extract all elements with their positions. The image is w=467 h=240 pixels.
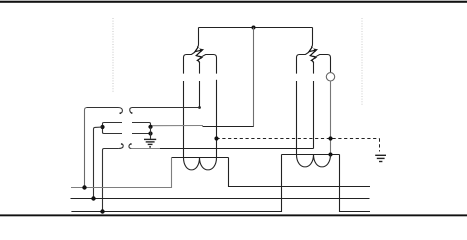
terminal block row A left: corner and wire from bus 1 (85, 108, 88, 188)
top border line (0, 1, 467, 3)
wire: vertical left lead of F2 group below gap (296, 81, 298, 155)
wire: center vertical from top bus dot (253, 28, 255, 127)
current transformer TA2 winding arc 1 (297, 155, 314, 167)
wire: row D right black portion to F2 middle lead (160, 148, 314, 150)
terminal link hook row A left (118, 108, 122, 114)
wire: row C left segment (103, 127, 123, 134)
current transformer TA1 winding arc 1 (184, 158, 200, 170)
ground symbol right (375, 155, 386, 161)
fuse F1 zigzag element (195, 47, 203, 63)
node: right voltage-link lower dot (148, 131, 152, 135)
wire: link between the two right dots down to ground (150, 127, 152, 139)
dashed earth wire horizontal (217, 138, 380, 140)
node: dashed wire dot on circle lead (328, 136, 332, 140)
wire: top bus left drop to fuse F1 (197, 28, 198, 48)
current transformer TA1 top bar (172, 157, 229, 159)
current transformer TA2 winding arc 2 (314, 155, 331, 167)
node: top bus junction dot (252, 26, 256, 30)
fold mark dotted line right (361, 18, 363, 105)
terminal link hook row A right (130, 108, 132, 114)
node: right voltage-link upper dot (148, 125, 152, 129)
node: dashed wire start dot on F1 right lead (214, 136, 218, 140)
wire: row C right segment (132, 133, 151, 135)
current transformer TA1 winding arc 2 (200, 158, 217, 170)
bottom border line (0, 214, 467, 216)
wire: horizontal link from center vertical to terminal block (black part) (203, 125, 254, 128)
terminal link hook row D right (curl up) (129, 144, 131, 149)
wire: vertical phase A lead below gap (183, 81, 185, 158)
wire: vertical middle lead of F1 below gap (199, 81, 201, 108)
wire: horizontal link grey part to node (151, 125, 204, 127)
wire: TA1 right edge down and out to load (229, 158, 371, 187)
wire: row B left segment (103, 123, 123, 128)
wire: row A right to meter (F1 middle lead) (132, 107, 200, 109)
wire: top bus (199, 27, 313, 29)
node: dot bus2 and voltage link wire (91, 196, 95, 200)
wire: from bus 2 up to left voltage-link node (94, 127, 103, 199)
wire: vertical middle lead of F2 below gap (313, 81, 315, 149)
wire: row D right grey portion (131, 148, 160, 150)
wire: fuse F2 left side lead with rounded corner (297, 52, 310, 74)
node: dot bus3 and row D wire (100, 209, 104, 213)
wire: bus 2 neutral line (71, 198, 370, 200)
node: dot at TA2 top bar and circle lead junction (329, 153, 333, 157)
wire: TA2 left edge down to bus 3 (71, 155, 281, 212)
fuse F2 zigzag element (309, 47, 317, 63)
wire: fuse F1 left side lead with rounded corner (184, 52, 196, 74)
wire: row B right segment (132, 123, 151, 127)
node: left voltage-link junction dot (100, 125, 104, 129)
wire: vertical right lead of F1 group below gap (216, 80, 218, 158)
node: dot bus1 and row A wire (82, 185, 86, 189)
fold mark dotted line left (112, 18, 114, 92)
lamp/indicator circle on F2 right branch (326, 73, 334, 81)
node: small corner blob at row A right end (198, 106, 201, 109)
current transformer TA2 top bar (282, 154, 340, 156)
node: hook tip blobs on link rows (119, 112, 132, 145)
wire: TA1 left edge down to bus 1 (71, 158, 172, 188)
wire: fuse F1 bottom lead (199, 62, 201, 74)
wire: fuse F2 bottom lead (313, 62, 315, 74)
wire: fuse F1 right side lead with rounded corner (202, 55, 216, 74)
wire: vertical lead below indicator circle (330, 81, 332, 155)
wire: TA2 right edge down and out to load (340, 155, 371, 212)
wire: top bus right drop to fuse F2 (311, 28, 312, 48)
wire: fuse F2 right side lead with rounded corner (316, 55, 330, 73)
terminal block row D left: corner and wire down to bus 3 (103, 149, 119, 212)
terminal link hook row D left (curl up) (119, 144, 124, 149)
ground symbol at terminal block (144, 139, 156, 147)
dashed earth wire vertical drop (379, 139, 381, 152)
